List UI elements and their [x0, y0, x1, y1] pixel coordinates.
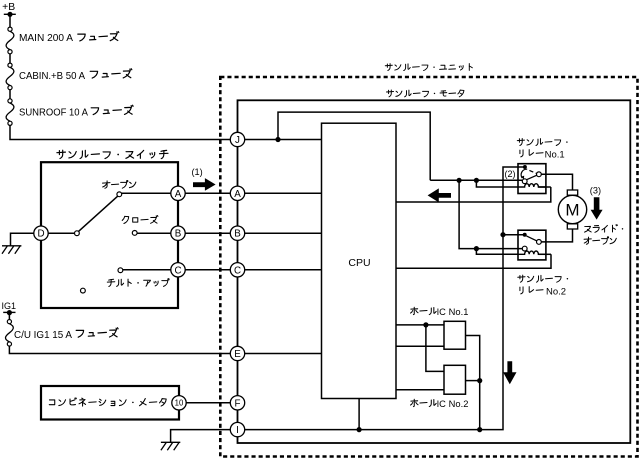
switch arm (open position): [79, 196, 118, 231]
ground at connector I: [171, 430, 231, 443]
wire ground net: relay1 top contact to ground rail to connector I: [245, 167, 525, 430]
node IG1 terminal: [3, 311, 15, 313]
svg-text:J: J: [235, 135, 240, 146]
svg-text:B: B: [175, 229, 182, 240]
connector 10 (meter): [172, 396, 186, 410]
wire +B to relay1 common contact: [430, 179, 522, 181]
wire relay2 to motor -: [541, 229, 572, 242]
svg-text:SUNROOF 10 A: SUNROOF 10 A: [19, 107, 88, 118]
svg-text:A: A: [234, 189, 241, 200]
connector B (unit): [230, 226, 244, 240]
label open: [103, 180, 136, 188]
wire meter to connector F: [186, 402, 231, 404]
svg-text:No.2: No.2: [449, 399, 469, 409]
svg-text:E: E: [234, 349, 241, 360]
connector E (unit): [230, 346, 244, 360]
wire B to CPU: [245, 232, 322, 234]
svg-text:MAIN 200 A: MAIN 200 A: [19, 33, 73, 44]
wire relay2 coil return to CPU: [538, 253, 551, 255]
node +B terminal: [4, 13, 16, 15]
label sunroof switch: [57, 150, 168, 158]
connector I (unit): [230, 422, 244, 436]
fuse C/U IG1 15A: [7, 320, 11, 324]
wire open contact to A: [122, 192, 171, 194]
wire +B feed to connector J: [10, 125, 231, 139]
wire D to switch arm: [48, 232, 75, 234]
wire IG1 fuse to connector E: [9, 346, 230, 353]
junction on J wire: [275, 137, 280, 142]
contact unconnected: [81, 288, 86, 293]
svg-text:B: B: [234, 229, 241, 240]
wire CPU to hall IC2 bottom: [396, 389, 444, 391]
junction hall sensor ground: [477, 427, 482, 432]
relay U1 box: [518, 164, 546, 194]
label close: [122, 216, 158, 224]
sunroof switch box: [41, 162, 178, 308]
fuse SUNROOF 10A: [8, 99, 12, 103]
wire relay2 coil feed: [476, 249, 518, 255]
svg-text:CPU: CPU: [348, 257, 370, 269]
wire relay1 to motor +: [541, 174, 572, 190]
label slide open: [585, 225, 624, 233]
wire B switch to unit: [185, 232, 231, 234]
motor M terminal bottom: [567, 224, 577, 229]
junction relay2 coil branch: [474, 246, 479, 251]
wire close contact to B: [137, 232, 171, 234]
wire +B branch to relay2 movable contact: [459, 180, 522, 248]
ground at switch: [11, 233, 35, 246]
relay U1 top contact: [523, 165, 527, 169]
wire: [9, 54, 11, 63]
wire +B feed up and over to relays: [278, 112, 430, 180]
wire C to CPU: [245, 269, 322, 271]
arrow (3) slide-open down: [591, 197, 603, 219]
wire relay1 coil return to CPU: [538, 186, 550, 188]
label hall IC No.1: [411, 307, 437, 314]
wire J to CPU: [245, 139, 322, 141]
connector A (switch): [171, 186, 185, 200]
junction +B/relay1 coil branch: [474, 178, 479, 183]
svg-text:10: 10: [175, 399, 184, 408]
label sunroof relay No.1: [517, 138, 567, 145]
hall IC No.2 box: [444, 365, 466, 394]
relay U2 top contact: [523, 233, 527, 237]
wire ground tee to relay2 top contact: [503, 234, 525, 236]
combination meter box: [41, 386, 179, 420]
connector C (switch): [171, 263, 185, 277]
connector A (unit): [230, 186, 244, 200]
svg-text:(1): (1): [192, 167, 203, 177]
connector F (unit): [230, 396, 244, 410]
arrow current flow left: [428, 188, 451, 202]
label sunroof relay No.2: [518, 275, 568, 282]
wire +B to fuse chain: [9, 14, 11, 27]
connector B (switch): [171, 226, 185, 240]
svg-text:IC: IC: [437, 399, 447, 409]
wire hall IC2 output: [466, 380, 480, 382]
junction hall outputs: [477, 378, 482, 383]
relay U1 movement arc (2): [521, 169, 527, 178]
relay U2 box: [518, 230, 546, 260]
svg-text:C/U IG1 15 A: C/U IG1 15 A: [14, 330, 72, 341]
wire E to CPU: [245, 353, 322, 355]
svg-text:F: F: [235, 398, 241, 409]
connector D: [34, 226, 48, 240]
arrow (1) right: [193, 178, 216, 191]
svg-text:CABIN.+B 50 A: CABIN.+B 50 A: [19, 71, 85, 82]
svg-text:No.1: No.1: [449, 307, 469, 317]
wire relay1 coil feed: [476, 180, 518, 187]
arrow down near hall ICs: [503, 361, 516, 384]
wire C switch to unit: [185, 269, 231, 271]
svg-text:(3): (3): [590, 186, 601, 196]
motor M terminal top: [567, 190, 577, 195]
motor M: [558, 195, 586, 223]
relay U2 NO contact: [537, 240, 542, 245]
svg-text:D: D: [37, 229, 44, 240]
contact close: [132, 231, 137, 236]
junction +B/relay2 branch: [457, 178, 462, 183]
contact open: [117, 192, 122, 197]
svg-text:IC: IC: [437, 307, 447, 317]
contact tilt-up: [118, 268, 123, 273]
relay U1 common contact: [522, 179, 527, 184]
junction relay2 common tee: [500, 232, 505, 237]
wire A to CPU: [245, 192, 322, 194]
label sunroof unit: [385, 64, 472, 71]
wire CPU to hall IC1 bottom: [396, 345, 444, 347]
wire CPU ground pin: [358, 399, 360, 430]
svg-text:A: A: [175, 189, 182, 200]
connector J (unit): [230, 132, 244, 146]
connector C (unit): [230, 263, 244, 277]
label tilt-up: [107, 279, 169, 287]
wire: [9, 90, 11, 99]
wire hall supply branch to IC2: [426, 325, 444, 372]
svg-text:(2): (2): [505, 169, 516, 179]
sunroof motor box: [238, 100, 631, 443]
switch arm pivot contact: [75, 231, 80, 236]
svg-text:No.2: No.2: [546, 286, 566, 296]
svg-text:C: C: [234, 265, 241, 276]
junction CPU ground: [357, 427, 362, 432]
relay U1 coil: [518, 184, 546, 187]
wire tilt contact to C: [123, 269, 171, 271]
label hall IC No.2: [411, 399, 437, 406]
relay U2 arm: [526, 236, 537, 241]
sunroof unit dashed border: [220, 77, 637, 457]
relay U1 NO contact: [537, 172, 542, 177]
svg-text:M: M: [565, 201, 579, 220]
CPU box: [322, 123, 397, 398]
wire A switch to unit: [185, 192, 231, 194]
wire hall IC1 output to ground rail: [466, 336, 480, 430]
svg-text:C: C: [174, 265, 181, 276]
wire CPU to hall IC1 top: [396, 324, 444, 326]
fuse CABIN.+B 50A: [8, 63, 12, 67]
label sunroof motor: [386, 90, 463, 97]
svg-text:No.1: No.1: [545, 149, 565, 159]
fuse MAIN 200A: [8, 27, 12, 31]
hall IC No.1 box: [444, 321, 466, 349]
svg-text:+B: +B: [2, 2, 15, 13]
relay U2 coil: [518, 251, 546, 254]
relay U2 lower contact: [522, 246, 527, 251]
wire IG1 to fuse: [8, 313, 10, 319]
relay U1 arm (energized, dashed rest): [527, 175, 537, 179]
svg-text:I: I: [236, 425, 239, 436]
junction hall supply: [423, 322, 428, 327]
label combination meter: [49, 398, 166, 406]
